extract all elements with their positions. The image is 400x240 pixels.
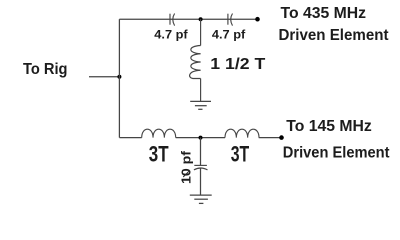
- wire: To Rig stub: [89, 76, 119, 78]
- node: top junction dot between capacitors: [199, 17, 203, 21]
- svg-text:3T: 3T: [149, 141, 169, 166]
- ground symbol GND2 below C3: [190, 195, 212, 203]
- wire: bottom branch right segment: [259, 137, 282, 139]
- wire: from C3 down to ground: [200, 168, 202, 195]
- inductor L3 3T (right horizontal coil): [225, 129, 259, 137]
- wire: top branch horizontal: [119, 18, 257, 20]
- label: slash of zero in 10 pf: [183, 171, 189, 177]
- node: junction dot on main vertical at To Rig: [117, 75, 121, 79]
- svg-text:1 1/2 T: 1 1/2 T: [210, 56, 265, 73]
- wire: bottom branch left segment: [119, 137, 141, 139]
- svg-text:To 145 MHz: To 145 MHz: [286, 118, 372, 135]
- node: bottom branch output terminal dot: [279, 135, 284, 140]
- capacitor C2 4.7pf (left plate + curved plate): [228, 14, 233, 26]
- svg-text:Driven Element: Driven Element: [283, 144, 390, 161]
- inductor L1 1 1/2 T (vertical coil): [190, 19, 201, 101]
- inductor L2 3T (left horizontal coil): [142, 129, 176, 137]
- svg-text:4.7 pf: 4.7 pf: [154, 28, 188, 42]
- capacitor C1 4.7pf (left plate + curved plate): [170, 14, 175, 26]
- wire: bottom branch middle segment: [176, 137, 225, 139]
- svg-text:10 pf: 10 pf: [179, 150, 194, 184]
- svg-text:3T: 3T: [231, 141, 250, 166]
- svg-text:To Rig: To Rig: [23, 61, 68, 78]
- wire: from bottom junction down to C3: [200, 138, 202, 166]
- svg-text:Driven Element: Driven Element: [279, 27, 390, 44]
- ground symbol GND1 below L1: [190, 101, 211, 109]
- svg-text:To 435 MHz: To 435 MHz: [281, 5, 367, 22]
- wire: main vertical bus: [118, 19, 120, 137]
- node: bottom junction dot between coils: [199, 136, 203, 140]
- node: top branch output terminal dot: [255, 17, 260, 22]
- svg-text:4.7 pf: 4.7 pf: [212, 28, 246, 42]
- capacitor C3 10pf (top plate + curved plate): [194, 165, 208, 170]
